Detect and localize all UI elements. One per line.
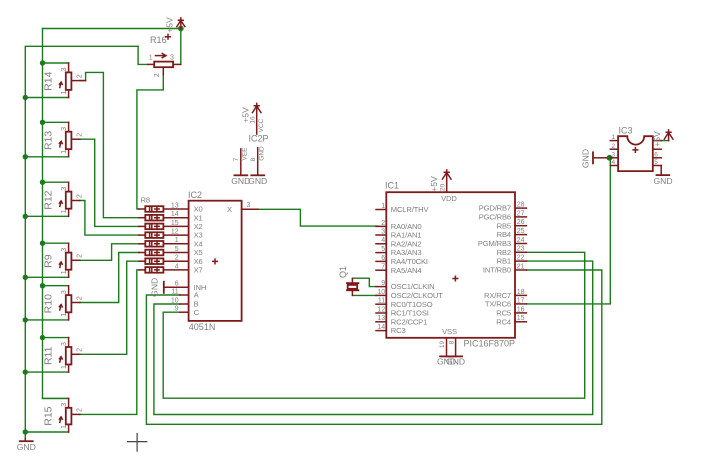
- potentiometer R10: [42, 286, 83, 320]
- svg-text:2: 2: [612, 143, 616, 150]
- svg-text:R10: R10: [42, 294, 54, 313]
- +5V supply at top bus: [165, 17, 185, 33]
- svg-text:GND: GND: [446, 357, 465, 367]
- svg-text:6: 6: [654, 151, 658, 158]
- svg-text:VSS: VSS: [442, 327, 457, 336]
- ground at left bus bottom: [17, 439, 36, 452]
- svg-text:15: 15: [517, 315, 525, 322]
- svg-text:3: 3: [61, 403, 68, 407]
- svg-text:RB1: RB1: [497, 257, 511, 266]
- svg-text:GND: GND: [17, 442, 36, 452]
- potentiometer R11: [42, 338, 83, 373]
- svg-text:R8: R8: [141, 195, 150, 204]
- sheet origin crosshair: [127, 433, 147, 452]
- svg-text:4051N: 4051N: [189, 322, 216, 332]
- svg-text:RA4/T0CKI: RA4/T0CKI: [391, 257, 428, 266]
- svg-text:PGD/RB7: PGD/RB7: [479, 204, 511, 213]
- IC2 pin 15 X2: [163, 220, 202, 231]
- svg-text:OSC1/CLKIN: OSC1/CLKIN: [391, 282, 435, 291]
- IC1 pin 5 RA3/AN3: [376, 246, 421, 257]
- svg-text:26: 26: [517, 219, 525, 226]
- resistor R8 element 5 (row X4): [139, 241, 164, 247]
- wire R9 pin3 to bus B: [43, 242, 69, 244]
- ground at IC1 pin 8: [446, 356, 465, 366]
- svg-text:1: 1: [149, 55, 153, 62]
- IC1 pin 19 VSS: [439, 338, 446, 357]
- svg-text:RC5: RC5: [496, 309, 511, 318]
- junction: [40, 283, 45, 288]
- +5V supply at IC2P VCC pin 16: [240, 103, 265, 134]
- potentiometer R14: [42, 63, 85, 98]
- IC1 pin 15 RC4: [496, 315, 526, 326]
- svg-text:28: 28: [517, 202, 525, 209]
- wire R15 wiper to X7: [80, 270, 139, 415]
- junction: [23, 154, 28, 159]
- junction at IC3 GND: [607, 155, 613, 161]
- svg-text:RA1/AN1: RA1/AN1: [391, 231, 422, 240]
- wire R10 pin1 to bus A: [25, 319, 68, 321]
- +5V supply at IC3 pin 8: [652, 130, 673, 147]
- svg-text:IC2: IC2: [188, 190, 202, 200]
- potentiometer R16: [148, 34, 181, 77]
- svg-text:1: 1: [381, 203, 385, 210]
- svg-text:+5V: +5V: [652, 131, 662, 147]
- IC2 pin 9 C: [175, 306, 200, 317]
- IC3 pin 1: [610, 134, 618, 141]
- svg-text:GND: GND: [580, 149, 590, 168]
- ground at IC3 pin 3 (rotated): [580, 149, 606, 168]
- IC2 pin 1 X4: [163, 237, 202, 248]
- svg-text:8: 8: [250, 157, 257, 161]
- IC1 pin 4 RA2/AN2: [376, 237, 421, 248]
- svg-text:3: 3: [381, 228, 385, 235]
- ground at IC2P GND: [248, 175, 267, 186]
- svg-text:RB4: RB4: [497, 230, 511, 239]
- IC1 pin 16 RC5: [496, 306, 526, 317]
- IC1 pin 18 RX/RC7: [484, 289, 526, 300]
- svg-text:15: 15: [171, 220, 179, 227]
- wire R14 pin3 to bus B: [43, 62, 69, 64]
- svg-text:OSC2/CLKOUT: OSC2/CLKOUT: [391, 291, 443, 300]
- wire R11 pin1 to bus A: [25, 371, 68, 373]
- IC3 pin 4: [610, 159, 618, 166]
- wire R14 pin1 to bus A: [25, 97, 68, 99]
- IC1 pin 28 PGD/RB7: [479, 202, 527, 213]
- IC1 pin 13 RC2/CCP1: [376, 315, 427, 326]
- svg-text:14: 14: [377, 324, 385, 331]
- resistor R8 element 4 (row X3): [139, 232, 164, 238]
- resistor R8 element 8 (row X7): [139, 267, 164, 273]
- svg-text:R9: R9: [42, 254, 54, 268]
- wire net A: IC2 pin11 to IC1 RB0: [146, 270, 601, 424]
- wire R10 pin3 to bus B: [43, 285, 69, 287]
- svg-text:1: 1: [61, 365, 68, 369]
- IC3 pin 7: [653, 148, 661, 150]
- IC2 pin 4 X7: [163, 263, 202, 274]
- svg-text:19: 19: [439, 341, 446, 349]
- svg-text:C: C: [194, 308, 200, 317]
- svg-text:14: 14: [171, 211, 179, 218]
- svg-text:21: 21: [517, 263, 525, 270]
- svg-text:3: 3: [170, 54, 174, 61]
- wire left bus line B (pot tops): [43, 29, 69, 399]
- svg-text:1: 1: [61, 313, 68, 317]
- svg-text:3: 3: [61, 342, 68, 346]
- junction: [23, 214, 28, 219]
- svg-text:RB2: RB2: [497, 248, 511, 257]
- junction at +5V top: [178, 26, 184, 32]
- svg-text:18: 18: [517, 289, 525, 296]
- svg-text:1: 1: [612, 134, 616, 141]
- wire R13 pin3 to bus B: [43, 121, 69, 123]
- svg-text:7: 7: [233, 157, 240, 161]
- svg-text:2: 2: [77, 254, 84, 258]
- IC2 pin 12 X3: [163, 229, 202, 240]
- svg-text:27: 27: [517, 210, 525, 217]
- svg-text:+5V: +5V: [165, 17, 175, 33]
- svg-text:X1: X1: [194, 213, 203, 222]
- svg-text:1: 1: [61, 150, 68, 154]
- svg-text:RC4: RC4: [496, 317, 511, 326]
- svg-text:IC2P: IC2P: [249, 134, 269, 144]
- wire left bus line A (pot bottoms): [25, 46, 138, 438]
- wire IC2 X output to IC1 RA0: [258, 209, 378, 226]
- IC3 pin 5: [653, 159, 661, 166]
- junction: [40, 180, 45, 185]
- svg-text:RC2/CCP1: RC2/CCP1: [391, 317, 427, 326]
- svg-text:R12: R12: [42, 190, 54, 209]
- IC3 8-pin device: [618, 126, 653, 172]
- wire R12 wiper to X3: [80, 201, 139, 236]
- potentiometer R15: [42, 398, 83, 432]
- potentiometer R9: [42, 243, 83, 277]
- wire R16 pin3 to +5V: [180, 29, 182, 65]
- resistor R8 element 6 (row X5): [139, 250, 164, 256]
- svg-text:1: 1: [61, 270, 68, 274]
- svg-text:2: 2: [77, 194, 84, 198]
- IC3 pin 6: [653, 151, 661, 158]
- svg-text:RB5: RB5: [497, 221, 511, 230]
- wire R10 wiper to X5: [80, 253, 139, 303]
- svg-text:16: 16: [250, 116, 257, 124]
- IC2 pin 14 X1: [163, 211, 202, 222]
- IC1 pin 7 RA5/AN4: [376, 264, 421, 275]
- wire IC3 GND to pin3: [607, 157, 611, 159]
- svg-text:X5: X5: [194, 248, 203, 257]
- svg-text:2: 2: [77, 74, 84, 78]
- IC1 pin 6 RA4/T0CKI: [376, 255, 428, 266]
- IC1 pin 12 RC1/T1OSI: [376, 306, 429, 317]
- svg-text:6: 6: [175, 281, 179, 288]
- svg-text:4: 4: [381, 237, 385, 244]
- svg-text:24: 24: [517, 237, 525, 244]
- svg-text:3: 3: [61, 248, 68, 252]
- wire to R16 pin1: [138, 46, 148, 64]
- svg-text:2: 2: [77, 408, 84, 412]
- IC1 pin 23 RB2: [497, 246, 527, 257]
- IC1 pin 22 RB1: [497, 255, 527, 266]
- IC1 pin 8 VSS: [449, 338, 456, 357]
- wire R12 pin1 to bus A: [25, 215, 68, 217]
- svg-text:X4: X4: [194, 239, 203, 248]
- ground at IC1 pin 19: [437, 356, 456, 366]
- wire net B: IC2 pin10 to IC1 RB1: [154, 261, 593, 414]
- svg-text:1: 1: [175, 237, 179, 244]
- svg-text:X3: X3: [194, 231, 203, 240]
- microcontroller IC1 PIC16F870P: [385, 181, 515, 349]
- junction: [23, 275, 28, 280]
- wire IC3 pin8 to +5V: [661, 140, 668, 142]
- junction: [23, 429, 28, 434]
- wire R14 wiper to X1: [80, 72, 139, 217]
- svg-text:1: 1: [61, 425, 68, 429]
- svg-text:3: 3: [247, 202, 251, 209]
- svg-text:10: 10: [377, 289, 385, 296]
- wire R11 pin3 to bus B: [43, 337, 69, 339]
- IC2 pin 11 A: [171, 288, 199, 299]
- svg-text:22: 22: [517, 255, 525, 262]
- svg-text:5: 5: [175, 246, 179, 253]
- svg-text:R14: R14: [42, 71, 54, 90]
- wire R13 pin1 to bus A: [25, 156, 68, 158]
- IC2 pin 5 X5: [163, 246, 202, 257]
- svg-text:GND: GND: [653, 176, 672, 186]
- svg-text:VEE: VEE: [242, 147, 249, 161]
- op-amp/mux IC2 4051N: [188, 190, 242, 332]
- potentiometer R13: [42, 122, 83, 157]
- IC1 pin 26 RB5: [497, 219, 527, 230]
- svg-text:10: 10: [171, 297, 179, 304]
- svg-text:1: 1: [61, 90, 68, 94]
- IC2 pin 10 B: [171, 297, 199, 308]
- svg-text:3: 3: [612, 151, 616, 158]
- svg-text:17: 17: [517, 297, 525, 304]
- wire R13 wiper to X2: [80, 139, 139, 226]
- svg-text:VCC: VCC: [258, 118, 265, 132]
- svg-text:3: 3: [61, 187, 68, 191]
- svg-text:INT/RB0: INT/RB0: [483, 266, 511, 275]
- IC1 pin 9 OSC1/CLKIN: [376, 280, 434, 291]
- junction: [23, 95, 28, 100]
- IC1 pin 2 RA0/AN0: [376, 220, 421, 231]
- svg-text:VDD: VDD: [441, 194, 457, 203]
- crystal Q1: [338, 266, 359, 295]
- wire R11 wiper to X6: [80, 261, 139, 354]
- svg-text:11: 11: [378, 298, 385, 305]
- svg-text:Q1: Q1: [338, 266, 348, 278]
- ground at IC3 pin 5: [653, 166, 672, 187]
- IC3 pin 3: [610, 151, 618, 158]
- IC1 pin 1 MCLR/THV: [376, 203, 429, 214]
- svg-text:RA3/AN3: RA3/AN3: [391, 248, 422, 257]
- wire R15 pin3 to bus B: [43, 397, 69, 399]
- IC1 pin 20 VDD with +5V supply: [429, 170, 451, 192]
- IC2 pin 6 INH: [164, 281, 206, 292]
- potentiometer R12: [42, 182, 83, 216]
- svg-text:R11: R11: [42, 346, 54, 365]
- svg-text:11: 11: [171, 288, 178, 295]
- svg-text:3: 3: [61, 290, 68, 294]
- svg-text:9: 9: [381, 280, 385, 287]
- ground at IC2P VEE: [231, 175, 250, 186]
- resistor R8 element 1 (row X0): [139, 206, 164, 212]
- junction: [23, 369, 28, 374]
- svg-text:GND: GND: [259, 146, 266, 161]
- svg-text:16: 16: [517, 306, 525, 313]
- wire R9 wiper to X4: [80, 244, 139, 260]
- svg-text:MCLR/THV: MCLR/THV: [391, 205, 430, 214]
- svg-text:GND: GND: [248, 176, 267, 186]
- svg-text:X2: X2: [194, 222, 203, 231]
- svg-text:R15: R15: [42, 406, 54, 425]
- wire net C: IC2 pin9 to IC1 RB2: [163, 252, 585, 398]
- svg-text:X6: X6: [194, 257, 203, 266]
- svg-text:R13: R13: [42, 131, 54, 150]
- svg-text:2: 2: [77, 296, 84, 300]
- svg-text:X: X: [227, 205, 232, 214]
- svg-text:RA5/AN4: RA5/AN4: [391, 266, 422, 275]
- svg-text:2: 2: [175, 255, 179, 262]
- svg-text:2: 2: [154, 73, 161, 77]
- svg-text:RC3: RC3: [391, 326, 406, 335]
- svg-text:TX/RC6: TX/RC6: [485, 300, 511, 309]
- wire R15 pin1 to bus A: [25, 431, 68, 433]
- IC1 pin 14 RC3: [376, 324, 406, 335]
- IC1 pin 24 PGM/RB3: [478, 237, 527, 248]
- ground at IC2 INH: [149, 278, 164, 297]
- svg-text:2: 2: [381, 220, 385, 227]
- svg-text:3: 3: [61, 127, 68, 131]
- IC2 pin 2 X6: [163, 255, 202, 266]
- IC1 pin 11 RC0/T1OSO: [376, 298, 433, 309]
- svg-text:IC1: IC1: [385, 181, 399, 191]
- svg-text:RC0/T1OSO: RC0/T1OSO: [391, 300, 433, 309]
- svg-text:RA2/AN2: RA2/AN2: [391, 239, 422, 248]
- svg-text:3: 3: [61, 67, 68, 71]
- IC2P GND pin 8: [250, 146, 266, 175]
- IC2 pin 13 X0: [163, 202, 202, 213]
- svg-text:12: 12: [171, 229, 179, 236]
- IC1 pin 10 OSC2/CLKOUT: [376, 289, 443, 300]
- svg-text:PGC/RB6: PGC/RB6: [479, 213, 511, 222]
- svg-text:13: 13: [171, 202, 179, 209]
- IC3 pin 8: [653, 140, 661, 142]
- svg-text:7: 7: [381, 264, 385, 271]
- IC1 pin 25 RB4: [497, 228, 527, 239]
- svg-text:8: 8: [449, 340, 456, 344]
- svg-text:4: 4: [612, 159, 616, 166]
- svg-text:4: 4: [175, 263, 179, 270]
- wire R9 pin1 to bus A: [25, 276, 68, 278]
- IC3 pin 2: [610, 143, 618, 150]
- IC2 pin 3 X output: [227, 202, 258, 214]
- junction: [40, 335, 45, 340]
- IC1 pin 21 INT/RB0: [483, 263, 526, 274]
- wire R16 wiper to X0: [137, 74, 163, 209]
- junction: [40, 241, 45, 246]
- R16 origin cross: [166, 34, 171, 39]
- svg-text:RC1/T1OSI: RC1/T1OSI: [391, 309, 429, 318]
- svg-text:PIC16F870P: PIC16F870P: [464, 339, 516, 349]
- wire Q1 top to OSC1: [352, 278, 376, 286]
- junction: [40, 60, 45, 65]
- svg-text:9: 9: [175, 306, 179, 313]
- svg-text:PGM/RB3: PGM/RB3: [478, 239, 511, 248]
- svg-text:1: 1: [61, 209, 68, 213]
- junction: [23, 317, 28, 322]
- svg-text:5: 5: [654, 159, 658, 166]
- svg-text:IC3: IC3: [619, 126, 633, 136]
- IC2P VEE pin 7: [233, 147, 249, 175]
- svg-text:23: 23: [517, 246, 525, 253]
- resistor R8 element 2 (row X1): [139, 215, 164, 221]
- svg-text:25: 25: [517, 228, 525, 235]
- wire R12 pin3 to bus B: [43, 181, 69, 183]
- svg-text:2: 2: [77, 348, 84, 352]
- wire IC3 pin4/GND to IC1 TX/RC6: [526, 158, 610, 304]
- svg-text:20: 20: [440, 184, 447, 192]
- junction: [40, 120, 45, 125]
- svg-text:R16: R16: [150, 35, 167, 45]
- resistor R8 element 3 (row X2): [139, 224, 164, 230]
- IC1 pin 3 RA1/AN1: [376, 228, 421, 239]
- svg-text:13: 13: [377, 315, 385, 322]
- IC1 pin 17 TX/RC6: [485, 297, 527, 308]
- svg-text:6: 6: [381, 255, 385, 262]
- svg-text:+5V: +5V: [429, 176, 439, 192]
- svg-text:2: 2: [77, 133, 84, 137]
- wire Q1 bottom to OSC2: [352, 294, 376, 296]
- svg-text:X7: X7: [194, 266, 203, 275]
- svg-text:GND: GND: [149, 278, 159, 297]
- resistor R8 element 7 (row X6): [139, 258, 164, 264]
- svg-text:12: 12: [377, 306, 385, 313]
- svg-text:5: 5: [381, 246, 385, 253]
- IC1 pin 27 PGC/RB6: [479, 210, 527, 221]
- svg-text:X0: X0: [194, 205, 203, 214]
- wire +5V top bus: [43, 28, 181, 30]
